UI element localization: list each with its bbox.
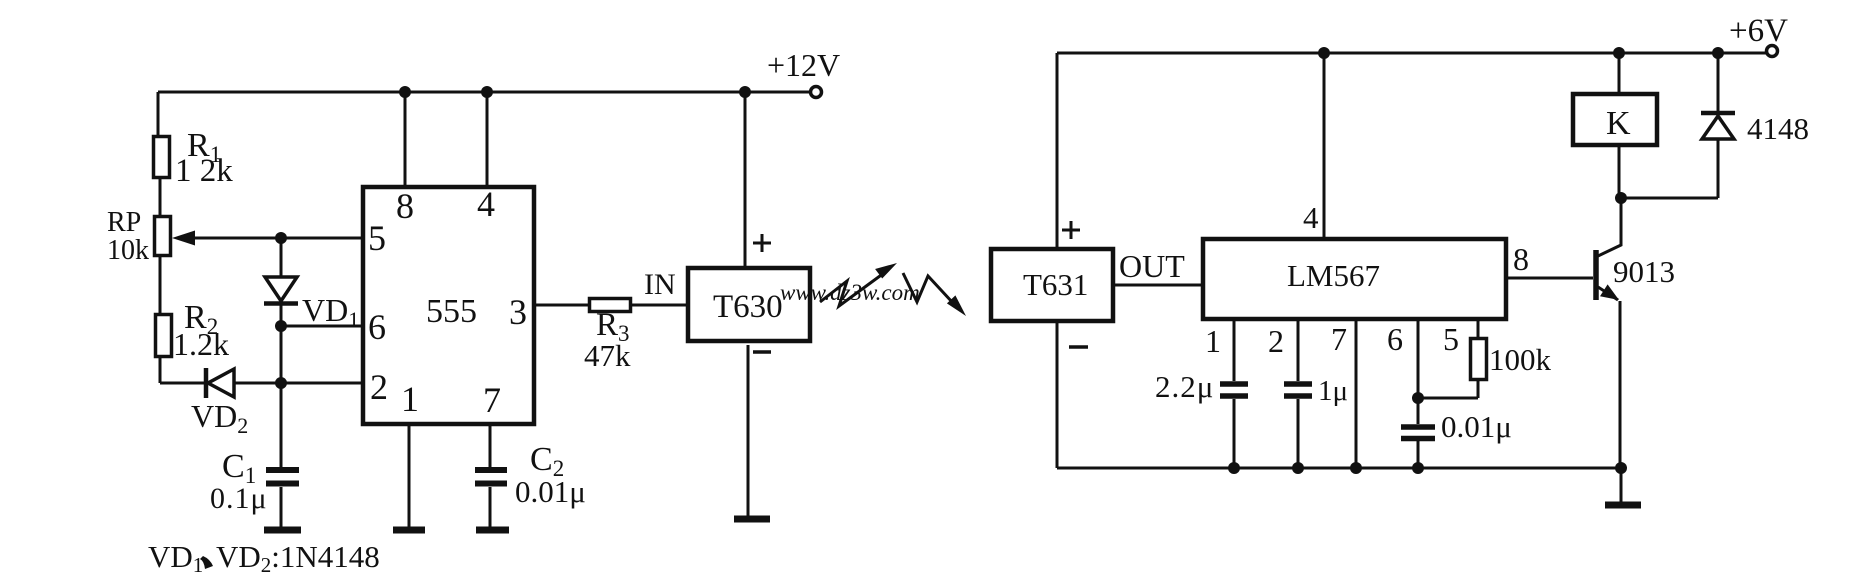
svg-text:5: 5 <box>368 218 386 258</box>
svg-text:0.1μ: 0.1μ <box>210 482 268 515</box>
svg-text:3: 3 <box>509 292 527 332</box>
svg-text:1μ: 1μ <box>1318 375 1348 407</box>
svg-text:LM567: LM567 <box>1287 258 1380 293</box>
svg-text:0.01μ: 0.01μ <box>515 474 586 509</box>
svg-text:4148: 4148 <box>1747 111 1809 146</box>
svg-text:6: 6 <box>1387 321 1403 357</box>
svg-text:5: 5 <box>1443 321 1459 357</box>
svg-text:555: 555 <box>426 293 477 330</box>
svg-text:4: 4 <box>477 184 495 224</box>
svg-text:6: 6 <box>368 307 386 347</box>
svg-text:T630: T630 <box>713 289 783 325</box>
svg-text:2.2μ: 2.2μ <box>1155 369 1214 404</box>
svg-text:IN: IN <box>644 268 676 301</box>
svg-text:100k: 100k <box>1489 342 1552 377</box>
svg-text:K: K <box>1606 105 1631 142</box>
svg-text:VD2:1N4148: VD2:1N4148 <box>216 539 380 577</box>
svg-text:9013: 9013 <box>1613 254 1675 289</box>
svg-text:1: 1 <box>1205 323 1221 359</box>
svg-text:4: 4 <box>1303 200 1319 235</box>
svg-text:1.2k: 1.2k <box>173 326 229 362</box>
svg-text:www.dz3w.com: www.dz3w.com <box>780 280 920 305</box>
svg-text:7: 7 <box>1331 321 1347 357</box>
svg-text:T631: T631 <box>1023 267 1088 302</box>
svg-text:1: 1 <box>401 379 419 419</box>
svg-text:2: 2 <box>370 367 388 407</box>
svg-text:47k: 47k <box>584 338 631 373</box>
svg-text:2: 2 <box>1268 323 1284 359</box>
svg-text:8: 8 <box>1513 241 1529 277</box>
svg-text:0.01μ: 0.01μ <box>1441 409 1512 444</box>
svg-text:OUT: OUT <box>1119 248 1185 284</box>
svg-text:+6V: +6V <box>1729 13 1788 49</box>
svg-text:RP: RP <box>107 207 141 238</box>
svg-text:10k: 10k <box>107 235 149 266</box>
svg-text:1 2k: 1 2k <box>175 153 233 189</box>
svg-text:+12V: +12V <box>767 47 840 83</box>
svg-text:7: 7 <box>483 380 501 420</box>
svg-text:8: 8 <box>396 186 414 226</box>
